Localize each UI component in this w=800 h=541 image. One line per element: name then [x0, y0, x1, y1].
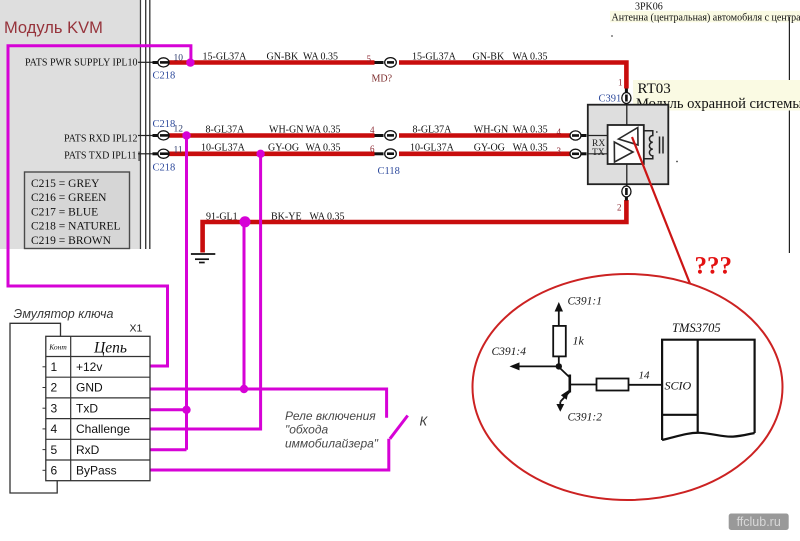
- svg-text:WA 0.35: WA 0.35: [303, 51, 338, 62]
- svg-text:К: К: [420, 414, 429, 429]
- svg-text:C391:4: C391:4: [492, 346, 527, 358]
- svg-text:WH-GN: WH-GN: [474, 124, 508, 135]
- svg-text:14: 14: [639, 370, 651, 382]
- svg-text:2: 2: [51, 381, 58, 395]
- svg-text:???: ???: [695, 253, 733, 280]
- svg-text:1: 1: [51, 360, 58, 374]
- svg-text:4: 4: [557, 127, 562, 137]
- svg-text:Эмулятор ключа: Эмулятор ключа: [14, 307, 114, 321]
- svg-text:GY-OG: GY-OG: [474, 142, 505, 153]
- svg-text:BK-YE: BK-YE: [271, 211, 302, 222]
- svg-text:WA 0.35: WA 0.35: [310, 211, 345, 222]
- svg-text:GND: GND: [76, 381, 103, 395]
- svg-text:WA 0.35: WA 0.35: [513, 142, 548, 153]
- svg-text:6: 6: [370, 144, 375, 154]
- svg-text:C218: C218: [153, 163, 176, 174]
- svg-text:PATS PWR SUPPLY IPL10: PATS PWR SUPPLY IPL10: [25, 58, 137, 69]
- svg-text:ffclub.ru: ffclub.ru: [737, 515, 781, 529]
- svg-text:C215 = GREY: C215 = GREY: [31, 178, 100, 190]
- svg-text:1k: 1k: [573, 334, 585, 348]
- svg-text:+12v: +12v: [76, 360, 102, 374]
- svg-text:ByPass: ByPass: [76, 464, 117, 478]
- svg-text:GY-OG: GY-OG: [268, 142, 299, 153]
- svg-text:8-GL37A: 8-GL37A: [413, 124, 453, 135]
- svg-text:WA 0.35: WA 0.35: [306, 142, 341, 153]
- svg-text:GN-BK: GN-BK: [473, 51, 505, 62]
- svg-text:15-GL37A: 15-GL37A: [203, 51, 248, 62]
- svg-text:4: 4: [370, 125, 375, 135]
- svg-text:WA 0.35: WA 0.35: [513, 51, 548, 62]
- svg-text:2: 2: [617, 203, 622, 213]
- svg-text:TMS3705: TMS3705: [672, 321, 721, 335]
- svg-text:10-GL37A: 10-GL37A: [201, 142, 246, 153]
- svg-text:C391:1: C391:1: [568, 296, 603, 308]
- svg-text:MD?: MD?: [372, 74, 393, 85]
- svg-text:C219 = BROWN: C219 = BROWN: [31, 235, 112, 247]
- svg-text:6: 6: [51, 464, 58, 478]
- svg-text:5: 5: [51, 443, 58, 457]
- svg-text:10-GL37A: 10-GL37A: [410, 142, 455, 153]
- svg-text:WH-GN: WH-GN: [269, 124, 303, 135]
- svg-text:RxD: RxD: [76, 443, 100, 457]
- svg-text:WA 0.35: WA 0.35: [306, 124, 341, 135]
- svg-text:Challenge: Challenge: [76, 422, 130, 436]
- svg-text:X1: X1: [130, 323, 143, 335]
- svg-text:C218: C218: [153, 71, 176, 82]
- svg-text:GN-BK: GN-BK: [267, 51, 299, 62]
- svg-text:Конт: Конт: [48, 343, 67, 352]
- svg-text:C118: C118: [378, 166, 400, 177]
- svg-text:TxD: TxD: [76, 401, 98, 415]
- svg-text:TX: TX: [592, 148, 605, 158]
- svg-text:C391:2: C391:2: [568, 412, 603, 424]
- svg-text:PATS RXD IPL12: PATS RXD IPL12: [64, 134, 138, 145]
- svg-text:C391: C391: [599, 93, 622, 104]
- svg-text:WA 0.35: WA 0.35: [513, 124, 548, 135]
- svg-text:RT03: RT03: [638, 81, 671, 97]
- svg-text:иммобилайзера": иммобилайзера": [285, 437, 379, 451]
- svg-text:8-GL37A: 8-GL37A: [206, 124, 246, 135]
- svg-text:1: 1: [618, 78, 623, 88]
- svg-text:Реле включения: Реле включения: [285, 409, 376, 423]
- svg-text:4: 4: [51, 422, 58, 436]
- svg-text:Модуль KVM: Модуль KVM: [4, 19, 103, 37]
- svg-text:C218 = NATUREL: C218 = NATUREL: [31, 221, 121, 233]
- svg-text:PATS TXD IPL11: PATS TXD IPL11: [64, 151, 136, 162]
- svg-text:C217 = BLUE: C217 = BLUE: [31, 206, 98, 218]
- svg-text:Цепь: Цепь: [93, 340, 127, 357]
- svg-text:3: 3: [557, 146, 562, 156]
- svg-text:C218: C218: [153, 119, 176, 130]
- svg-text:"обхода: "обхода: [285, 423, 328, 437]
- svg-text:15-GL37A: 15-GL37A: [412, 51, 457, 62]
- svg-text:3: 3: [51, 401, 58, 415]
- svg-text:5: 5: [367, 54, 372, 64]
- svg-text:Антенна (центральная) автомоби: Антенна (центральная) автомобиля с центр…: [612, 12, 800, 23]
- svg-text:C216 = GREEN: C216 = GREEN: [31, 192, 107, 204]
- svg-text:11: 11: [174, 146, 183, 156]
- svg-text:91-GL1: 91-GL1: [206, 211, 238, 222]
- svg-text:10: 10: [174, 54, 184, 64]
- svg-text:SCIO: SCIO: [665, 379, 692, 393]
